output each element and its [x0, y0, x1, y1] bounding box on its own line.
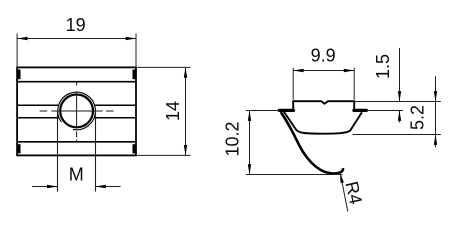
arrow 10.2 bottom	[248, 164, 251, 174]
centerline horizontal	[40, 110, 114, 112]
R4 leader arrow	[340, 173, 344, 183]
dimension 1.5 line lower with arrow	[399, 111, 401, 123]
top surface extension line	[355, 101, 441, 103]
dimension 14 extension lines	[136, 67, 191, 155]
spring leaf	[281, 112, 343, 174]
flange top outline with V-notch	[293, 101, 354, 110]
nose mark bottom-left	[18, 144, 21, 153]
dimension 19 extension lines	[17, 34, 136, 68]
right nose (thick ledge)	[354, 109, 367, 112]
svg-text:10.2: 10.2	[223, 121, 243, 156]
arrow M left	[47, 185, 57, 188]
svg-text:1.5: 1.5	[373, 54, 393, 79]
nose mark bottom-right	[133, 144, 136, 153]
arrow 5.2 down	[434, 91, 437, 101]
dimension 19 line	[17, 38, 136, 40]
dimension 1.5 line upper with arrow	[399, 48, 401, 102]
arrow 5.2 up	[434, 135, 437, 145]
dimension 10.2 extension lines	[246, 111, 343, 175]
slot line upper	[17, 104, 136, 106]
arrow 9.9 left	[293, 69, 303, 72]
flange underside	[284, 112, 362, 134]
arrow 14 top	[184, 67, 187, 77]
ledge extension line (1.5)	[367, 110, 403, 112]
arrow 14 bottom	[184, 145, 187, 155]
nose mark top-right	[133, 70, 136, 80]
nut body outline	[17, 67, 136, 155]
arrow 1.5 down	[398, 91, 401, 101]
arrow 1.5 up	[398, 111, 401, 121]
svg-text:5.2: 5.2	[408, 105, 428, 130]
nose mark top-left	[18, 70, 21, 80]
centerline vertical	[76, 82, 78, 142]
R4 leader line	[341, 175, 348, 212]
dimension 9.9 extension lines	[293, 68, 354, 100]
dimension 5.2 line	[435, 76, 437, 147]
nut edge line top	[17, 81, 136, 83]
bottom-right extension line (5.2)	[353, 134, 441, 136]
nut edge line bottom	[17, 141, 136, 143]
dimension M extension lines (hole tangents)	[58, 111, 96, 192]
dimension 9.9 line	[293, 70, 354, 72]
svg-text:9.9: 9.9	[311, 46, 336, 66]
dimension 10.2 line	[249, 111, 251, 175]
slot line lower	[17, 117, 136, 119]
arrow 19 right	[126, 37, 136, 40]
threaded hole major arc (3/4)	[58, 92, 96, 130]
svg-text:M: M	[69, 165, 84, 185]
arrow 9.9 right	[344, 69, 354, 72]
dimension 14 line	[185, 67, 187, 155]
svg-text:19: 19	[66, 15, 86, 35]
arrow 19 left	[17, 37, 27, 40]
arrow M right	[96, 185, 106, 188]
left nose (thick ledge)	[279, 109, 293, 112]
svg-text:14: 14	[163, 101, 183, 121]
arrow 10.2 top	[248, 111, 251, 121]
dimension M line	[32, 186, 121, 188]
threaded hole minor circle	[60, 95, 93, 128]
